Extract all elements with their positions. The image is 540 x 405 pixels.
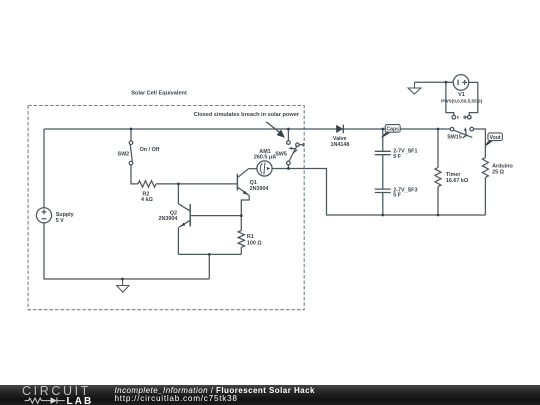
voltage source Supply — [36, 208, 51, 223]
wire Q2 emitter drop — [177, 227, 179, 254]
svg-text:5 F: 5 F — [393, 154, 401, 160]
svg-text:Closed simulates breach in sol: Closed simulates breach in solar power — [194, 112, 300, 118]
svg-text:260.5 μA: 260.5 μA — [254, 155, 276, 161]
svg-text:SW5: SW5 — [275, 152, 287, 158]
svg-text:4 kΩ: 4 kΩ — [141, 197, 153, 203]
footer logo CIRCUIT LAB — [22, 384, 93, 405]
svg-text:2N3904: 2N3904 — [250, 186, 269, 192]
svg-text:5 V: 5 V — [56, 218, 64, 224]
svg-text:2N3904: 2N3904 — [159, 216, 178, 222]
ammeter AM1 — [257, 161, 272, 176]
transistor Q2 — [178, 204, 190, 227]
svg-text:LAB: LAB — [67, 396, 94, 405]
junction Q2 base/R1 — [240, 214, 243, 217]
svg-text:http://circuitlab.com/c75tk38: http://circuitlab.com/c75tk38 — [115, 394, 238, 403]
svg-text:SW15: SW15 — [447, 134, 462, 140]
transistor Q1 — [237, 169, 249, 196]
svg-text:16.67 kΩ: 16.67 kΩ — [446, 178, 469, 184]
wire SW15 to arduino — [474, 129, 486, 158]
junction rail/Timer — [437, 128, 440, 131]
wire SW5 stub — [287, 165, 289, 169]
resistor R1 — [238, 231, 244, 248]
svg-text:Caps: Caps — [386, 127, 399, 133]
wire SW5 branch — [287, 129, 289, 141]
wire timer bottom — [437, 187, 439, 215]
svg-text:SW2: SW2 — [118, 152, 130, 158]
svg-text:On / Off: On / Off — [140, 147, 160, 153]
wire cap2 to bottom rail — [382, 193, 384, 215]
wire between caps — [382, 155, 384, 189]
switch SW15 — [450, 127, 473, 138]
resistor Arduino — [482, 158, 488, 178]
junction V1/ground — [445, 81, 448, 84]
wire ground riser — [208, 254, 210, 279]
wire SW2 branch — [130, 129, 132, 141]
annotation arrow — [266, 122, 284, 137]
resistor Timer — [435, 168, 441, 187]
wire Q1 collector to AM1 — [249, 168, 257, 170]
wire R1 top — [240, 216, 242, 231]
wire node to caps bottom rail — [288, 169, 485, 216]
capacitor 2-7V_SF1 — [375, 151, 391, 154]
wire R1 bottom — [240, 247, 242, 254]
svg-text:Solar Cell Equivalent: Solar Cell Equivalent — [131, 90, 187, 96]
ground V1 — [408, 82, 421, 94]
wire caps top branch — [382, 129, 384, 151]
junction bottom rail/caps — [381, 214, 384, 217]
wire supply bottom — [44, 223, 209, 279]
wire timer top — [437, 129, 439, 168]
wire arduino bottom — [484, 178, 486, 216]
node Caps flag — [381, 125, 400, 138]
svg-text:Vout: Vout — [490, 135, 501, 141]
wire R2 to Q1 base — [156, 183, 237, 185]
wire Q2 collector drop — [177, 184, 179, 204]
svg-text:5 F: 5 F — [393, 193, 401, 199]
svg-text:V1: V1 — [458, 92, 465, 98]
wire top rail — [44, 128, 450, 130]
wire emitter rail — [178, 253, 241, 255]
resistor R2 — [138, 181, 156, 187]
svg-text:1N4148: 1N4148 — [331, 142, 350, 148]
svg-text:Timer: Timer — [446, 172, 461, 178]
junction rail/SW5 — [287, 128, 290, 131]
svg-text:PWS(0,0,50,5,55,0): PWS(0,0,50,5,55,0) — [441, 98, 483, 103]
switch SW2 — [129, 141, 133, 165]
junction rail/SW2 — [130, 128, 133, 131]
wire Q1 emitter jog — [241, 196, 249, 216]
wire supply top — [43, 129, 45, 208]
wire Q2 base to node — [191, 215, 241, 217]
svg-text:100 Ω: 100 Ω — [247, 241, 262, 247]
svg-text:Arduino: Arduino — [492, 163, 513, 169]
junction ground rail/ground — [121, 278, 124, 281]
junction R2/Q2 collector — [177, 183, 180, 186]
diode Valve 1N4148 — [336, 125, 343, 134]
footer bar — [0, 385, 540, 405]
node Vout flag — [485, 133, 502, 147]
junction rail/caps — [381, 128, 384, 131]
svg-text:R1: R1 — [247, 234, 254, 240]
dashed enclosure Solar Cell Equivalent — [28, 106, 304, 310]
ground solar cell — [117, 279, 129, 292]
voltage source V1 — [415, 75, 478, 120]
svg-text:25 Ω: 25 Ω — [492, 170, 504, 176]
junction bottom rail/Timer — [437, 214, 440, 217]
wire AM1 to SW5 node — [272, 168, 288, 170]
junction AM1/SW5 — [287, 167, 290, 170]
capacitor 2-7V_SF3 — [375, 189, 391, 192]
junction emitter rail/ground riser — [208, 253, 211, 256]
switch SW5 — [287, 141, 304, 165]
wire SW2 to R2 — [131, 165, 138, 184]
